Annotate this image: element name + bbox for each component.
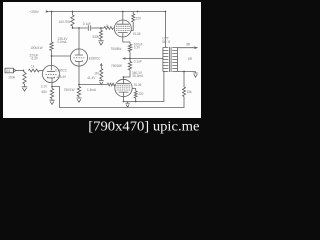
svg-text:1k: 1k	[31, 65, 35, 69]
resistor R4 100/2W	[71, 15, 74, 26]
ground sym V1a cathode	[49, 100, 54, 104]
wire V1a cathode down	[51, 83, 53, 87]
svg-text:0.1uF: 0.1uF	[134, 59, 142, 63]
ground sym 330k	[98, 41, 103, 45]
svg-text:36.3mA: 36.3mA	[132, 74, 144, 78]
junction (135.7,101.5)	[135, 101, 137, 103]
svg-text:1M: 1M	[94, 72, 99, 76]
tube V1a plate grid cathode	[47, 71, 55, 73]
wire secondary bottom	[178, 71, 196, 73]
value and annotation labels	[6, 10, 192, 96]
wire down to bleeder	[100, 65, 102, 68]
resistor R6 330k grid leak	[100, 30, 103, 39]
wire V2 cathode to divider	[123, 37, 130, 42]
capacitor C2 0.1uF plates	[88, 25, 90, 31]
wire plate node to V1b grid	[52, 55, 71, 57]
ground sym V1b cathode	[76, 98, 81, 102]
junction (184,71.5)	[183, 71, 185, 73]
resistor R5 1k grid stopper V1a	[29, 69, 40, 72]
wire V3 plate lead	[123, 77, 125, 79]
svg-text:100k/1W: 100k/1W	[30, 46, 42, 50]
node arrow left tap	[122, 57, 125, 60]
svg-text:750/8W: 750/8W	[111, 64, 122, 68]
wire V1b cathode down	[78, 66, 80, 86]
tube V1b plate grid cathode	[75, 49, 83, 55]
ground sym bleeder	[99, 81, 104, 85]
black page background	[0, 0, 204, 140]
wire B+ rail top	[49, 11, 166, 13]
resistor R15 1M bleeder	[100, 69, 103, 80]
junction (130,58.5)	[129, 58, 131, 60]
junction (122.8,11.5)	[122, 11, 124, 13]
svg-text:330k: 330k	[92, 35, 99, 39]
resistor R12 1k grid stopper V3	[107, 83, 115, 86]
svg-text:138.4V: 138.4V	[56, 75, 67, 79]
wire divider bottom to V3 plate	[124, 70, 131, 77]
resistor R1 100k input	[23, 73, 26, 85]
svg-text:220: 220	[136, 16, 141, 20]
junction (72.5,11.5)	[72, 11, 74, 13]
junction (79,84.5)	[78, 84, 80, 86]
white schematic sheet	[3, 2, 201, 118]
svg-text:E180CC: E180CC	[89, 57, 102, 61]
transformer T1 secondary winding	[172, 48, 177, 72]
resistor R11 750 1W V1b cathode	[77, 87, 80, 97]
tube V2 plate grids cathode	[117, 20, 130, 24]
ground sym input	[22, 87, 28, 91]
junction (101,28)	[100, 27, 102, 29]
svg-text:1k: 1k	[105, 24, 109, 28]
wire rail feed 100 2W	[72, 12, 74, 16]
svg-text:IN: IN	[6, 69, 10, 73]
wire V3 cathode bus	[124, 72, 166, 102]
wire cap to grid node	[91, 27, 104, 29]
junction (123.5,77)	[123, 76, 125, 78]
svg-text:E180CC: E180CC	[55, 69, 68, 73]
wire output node to OPT tap	[130, 58, 163, 60]
junction (137.5,11.5)	[137, 11, 139, 13]
svg-text:750/1W: 750/1W	[64, 88, 75, 92]
svg-text:EL36: EL36	[134, 83, 142, 87]
svg-text:EL36: EL36	[133, 32, 141, 36]
tube V1b envelope	[70, 49, 87, 66]
junction (51.5,11.5)	[51, 11, 53, 13]
wire V3 screen	[132, 89, 136, 92]
svg-text:[790x470] upic.me: [790x470] upic.me	[88, 119, 199, 134]
wire V1b plate lead up	[78, 28, 80, 49]
resistor R10 750 lower	[128, 62, 131, 71]
ground sym cathode bus	[127, 102, 129, 104]
wire plate node	[51, 51, 53, 57]
resistor R8 220 screen	[132, 14, 135, 22]
wire V1a plate lead	[51, 56, 53, 70]
tube V2 envelope	[114, 20, 131, 37]
svg-text:220: 220	[138, 92, 143, 96]
svg-text:+255V: +255V	[30, 10, 40, 14]
resistor R13 220 screen V3	[134, 91, 137, 98]
wire to coupling node	[73, 26, 88, 28]
transformer T1 primary winding	[163, 48, 168, 72]
node output arrow	[194, 46, 198, 49]
svg-text:0.1uF: 0.1uF	[83, 22, 91, 26]
junction (52,86.5)	[51, 86, 53, 88]
junction (79,28)	[78, 27, 80, 29]
wire tap arrow stub	[125, 58, 130, 60]
wire input	[16, 70, 23, 72]
resistor R9 750 upper	[128, 44, 131, 51]
resistor R14 feedback	[183, 87, 186, 97]
tube V3 envelope	[115, 79, 132, 96]
wire divider top	[129, 42, 131, 44]
wire V1b cathode out	[79, 84, 107, 86]
junction (51.5,56)	[51, 55, 53, 57]
junction (123.5,101.5)	[123, 101, 125, 103]
node arrow up x101	[100, 63, 103, 66]
wire rail drop to OPT primary top	[165, 12, 167, 48]
svg-text:100 /2W: 100 /2W	[59, 20, 71, 24]
transformer T1 core	[170, 47, 172, 72]
svg-text:1.5mA: 1.5mA	[87, 88, 97, 92]
svg-text:750/8W: 750/8W	[111, 47, 122, 51]
wire secondary top to output	[178, 47, 195, 49]
resistor R2 100k plate load	[50, 42, 53, 51]
svg-text:0.6mA: 0.6mA	[58, 40, 68, 44]
resistor R7 1k grid stopper V2	[104, 27, 113, 30]
svg-text:41.4V: 41.4V	[87, 76, 96, 80]
junction dots	[23, 11, 185, 103]
wire V1a plate load top feed	[51, 12, 53, 43]
svg-text:680: 680	[42, 90, 47, 94]
wire V2 screen feed	[132, 12, 134, 14]
tube V1a envelope	[42, 65, 59, 82]
tube V3 plate grids cathode	[117, 79, 130, 83]
wire feedback from cathode	[52, 87, 184, 108]
svg-text:6.3V: 6.3V	[134, 46, 141, 50]
junction (72.5,28)	[72, 27, 74, 29]
svg-text:5k : 8: 5k : 8	[162, 40, 170, 44]
junction (165.5,11.5)	[165, 11, 167, 13]
svg-text:2.1V: 2.1V	[41, 84, 48, 88]
wire feedback to secondary	[183, 72, 185, 88]
junction (23.4,70.5)	[23, 70, 25, 72]
node input jack	[5, 68, 14, 73]
wire divider mid	[129, 51, 131, 61]
wire V2 plate to rail	[122, 12, 124, 21]
svg-text:15k: 15k	[187, 90, 192, 94]
svg-text:6.3V: 6.3V	[32, 57, 39, 61]
node B+ supply arrow	[46, 10, 50, 12]
ground sym secondary	[195, 72, 197, 73]
svg-text:100k: 100k	[8, 76, 15, 80]
resistor R3 680 cathode	[50, 89, 53, 99]
